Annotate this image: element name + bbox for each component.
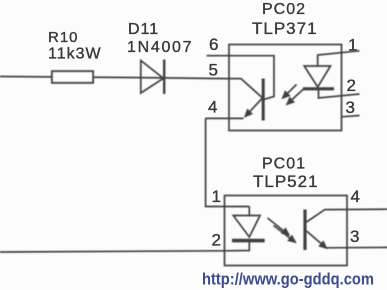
optocoupler PC01 box <box>225 196 348 266</box>
PC01 phototransistor bar <box>303 210 306 251</box>
svg-text:3: 3 <box>346 98 355 117</box>
PC02 pin 5 base lead <box>229 79 263 98</box>
wire PC01 pin 2 to left edge <box>0 251 225 252</box>
wire PC02 pin4 down to PC01 pin1 <box>206 118 250 206</box>
svg-text:http://www.go-gddq.com: http://www.go-gddq.com <box>202 271 374 289</box>
resistor R10 <box>52 71 93 83</box>
wire main input left <box>0 77 140 78</box>
PC01 light arrow 2 <box>274 226 296 243</box>
svg-text:1N4007: 1N4007 <box>127 39 193 56</box>
PC01 emitter with arrow <box>307 231 327 248</box>
PC01 emitter lead pin 3 <box>326 246 387 248</box>
svg-text:TLP521: TLP521 <box>253 172 319 191</box>
PC02 LED cathode bar <box>303 87 334 90</box>
svg-text:1: 1 <box>212 187 221 206</box>
PC02 pin 6 lead <box>207 56 274 100</box>
PC02 pin 3 stub <box>342 116 360 117</box>
svg-text:5: 5 <box>209 61 218 80</box>
svg-text:3: 3 <box>350 227 359 246</box>
PC01 light arrow 1 <box>268 218 290 235</box>
svg-text:6: 6 <box>209 35 218 54</box>
svg-text:2: 2 <box>212 231 221 250</box>
PC02 LED anode lead pin 1 <box>318 51 360 66</box>
PC02 emitter with arrow to pin 4 <box>245 99 262 117</box>
PC01 LED cathode lead pin 2 <box>225 241 250 251</box>
PC01 LED anode lead pin 1 <box>248 207 250 216</box>
svg-text:D11: D11 <box>128 21 159 38</box>
PC02 phototransistor bar <box>262 79 265 121</box>
svg-text:PC02: PC02 <box>262 1 306 18</box>
optocoupler PC02 box <box>229 45 342 131</box>
svg-text:TLP371: TLP371 <box>252 19 318 38</box>
PC02 light arrow 2 <box>287 89 304 105</box>
PC01 collector lead pin 4 <box>307 209 387 222</box>
svg-text:4: 4 <box>351 187 360 206</box>
svg-text:PC01: PC01 <box>262 156 306 173</box>
PC02 pin 4 lead <box>206 117 244 119</box>
svg-text:4: 4 <box>208 98 217 117</box>
PC01 LED triangle <box>233 216 260 238</box>
svg-text:11k3W: 11k3W <box>48 46 102 63</box>
PC02 LED cathode lead pin 2 <box>319 89 360 98</box>
diode D11 <box>141 61 164 94</box>
PC02 light arrow 1 <box>283 85 297 99</box>
PC01 LED cathode bar <box>232 239 265 243</box>
wire diode to PC02 pin5 <box>140 78 229 79</box>
svg-text:R10: R10 <box>48 29 79 46</box>
svg-text:1: 1 <box>348 36 357 55</box>
svg-text:2: 2 <box>347 76 356 95</box>
PC02 LED triangle <box>304 66 330 87</box>
